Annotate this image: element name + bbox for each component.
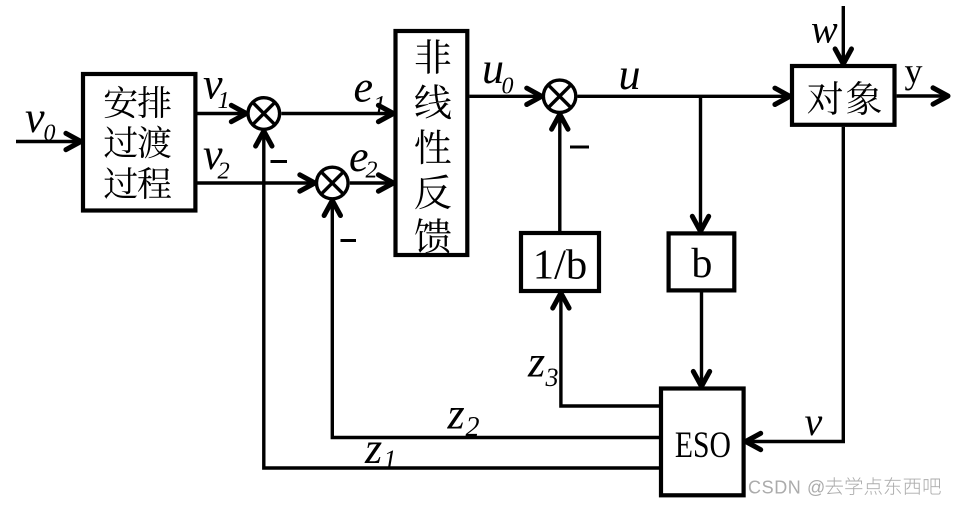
svg-text:1: 1	[373, 91, 386, 120]
svg-text:CSDN @: CSDN @	[748, 478, 826, 498]
svg-text:e: e	[354, 63, 374, 112]
svg-text:1/b: 1/b	[533, 243, 588, 289]
svg-text:w: w	[811, 7, 838, 52]
svg-text:3: 3	[545, 363, 559, 392]
svg-text:y: y	[905, 51, 923, 91]
svg-text:2: 2	[466, 412, 480, 443]
svg-text:v: v	[25, 93, 45, 142]
svg-text:1: 1	[218, 87, 230, 114]
svg-text:v: v	[805, 399, 823, 444]
svg-text:ESO: ESO	[675, 425, 731, 466]
svg-text:1: 1	[384, 445, 397, 474]
svg-text:2: 2	[366, 158, 378, 184]
svg-text:z: z	[527, 338, 545, 387]
svg-text:z: z	[447, 390, 465, 439]
svg-text:b: b	[691, 241, 712, 287]
svg-text:0: 0	[44, 121, 56, 147]
svg-text:2: 2	[218, 158, 230, 185]
svg-text:u: u	[619, 50, 641, 99]
svg-text:0: 0	[502, 74, 514, 100]
svg-text:z: z	[364, 424, 382, 473]
